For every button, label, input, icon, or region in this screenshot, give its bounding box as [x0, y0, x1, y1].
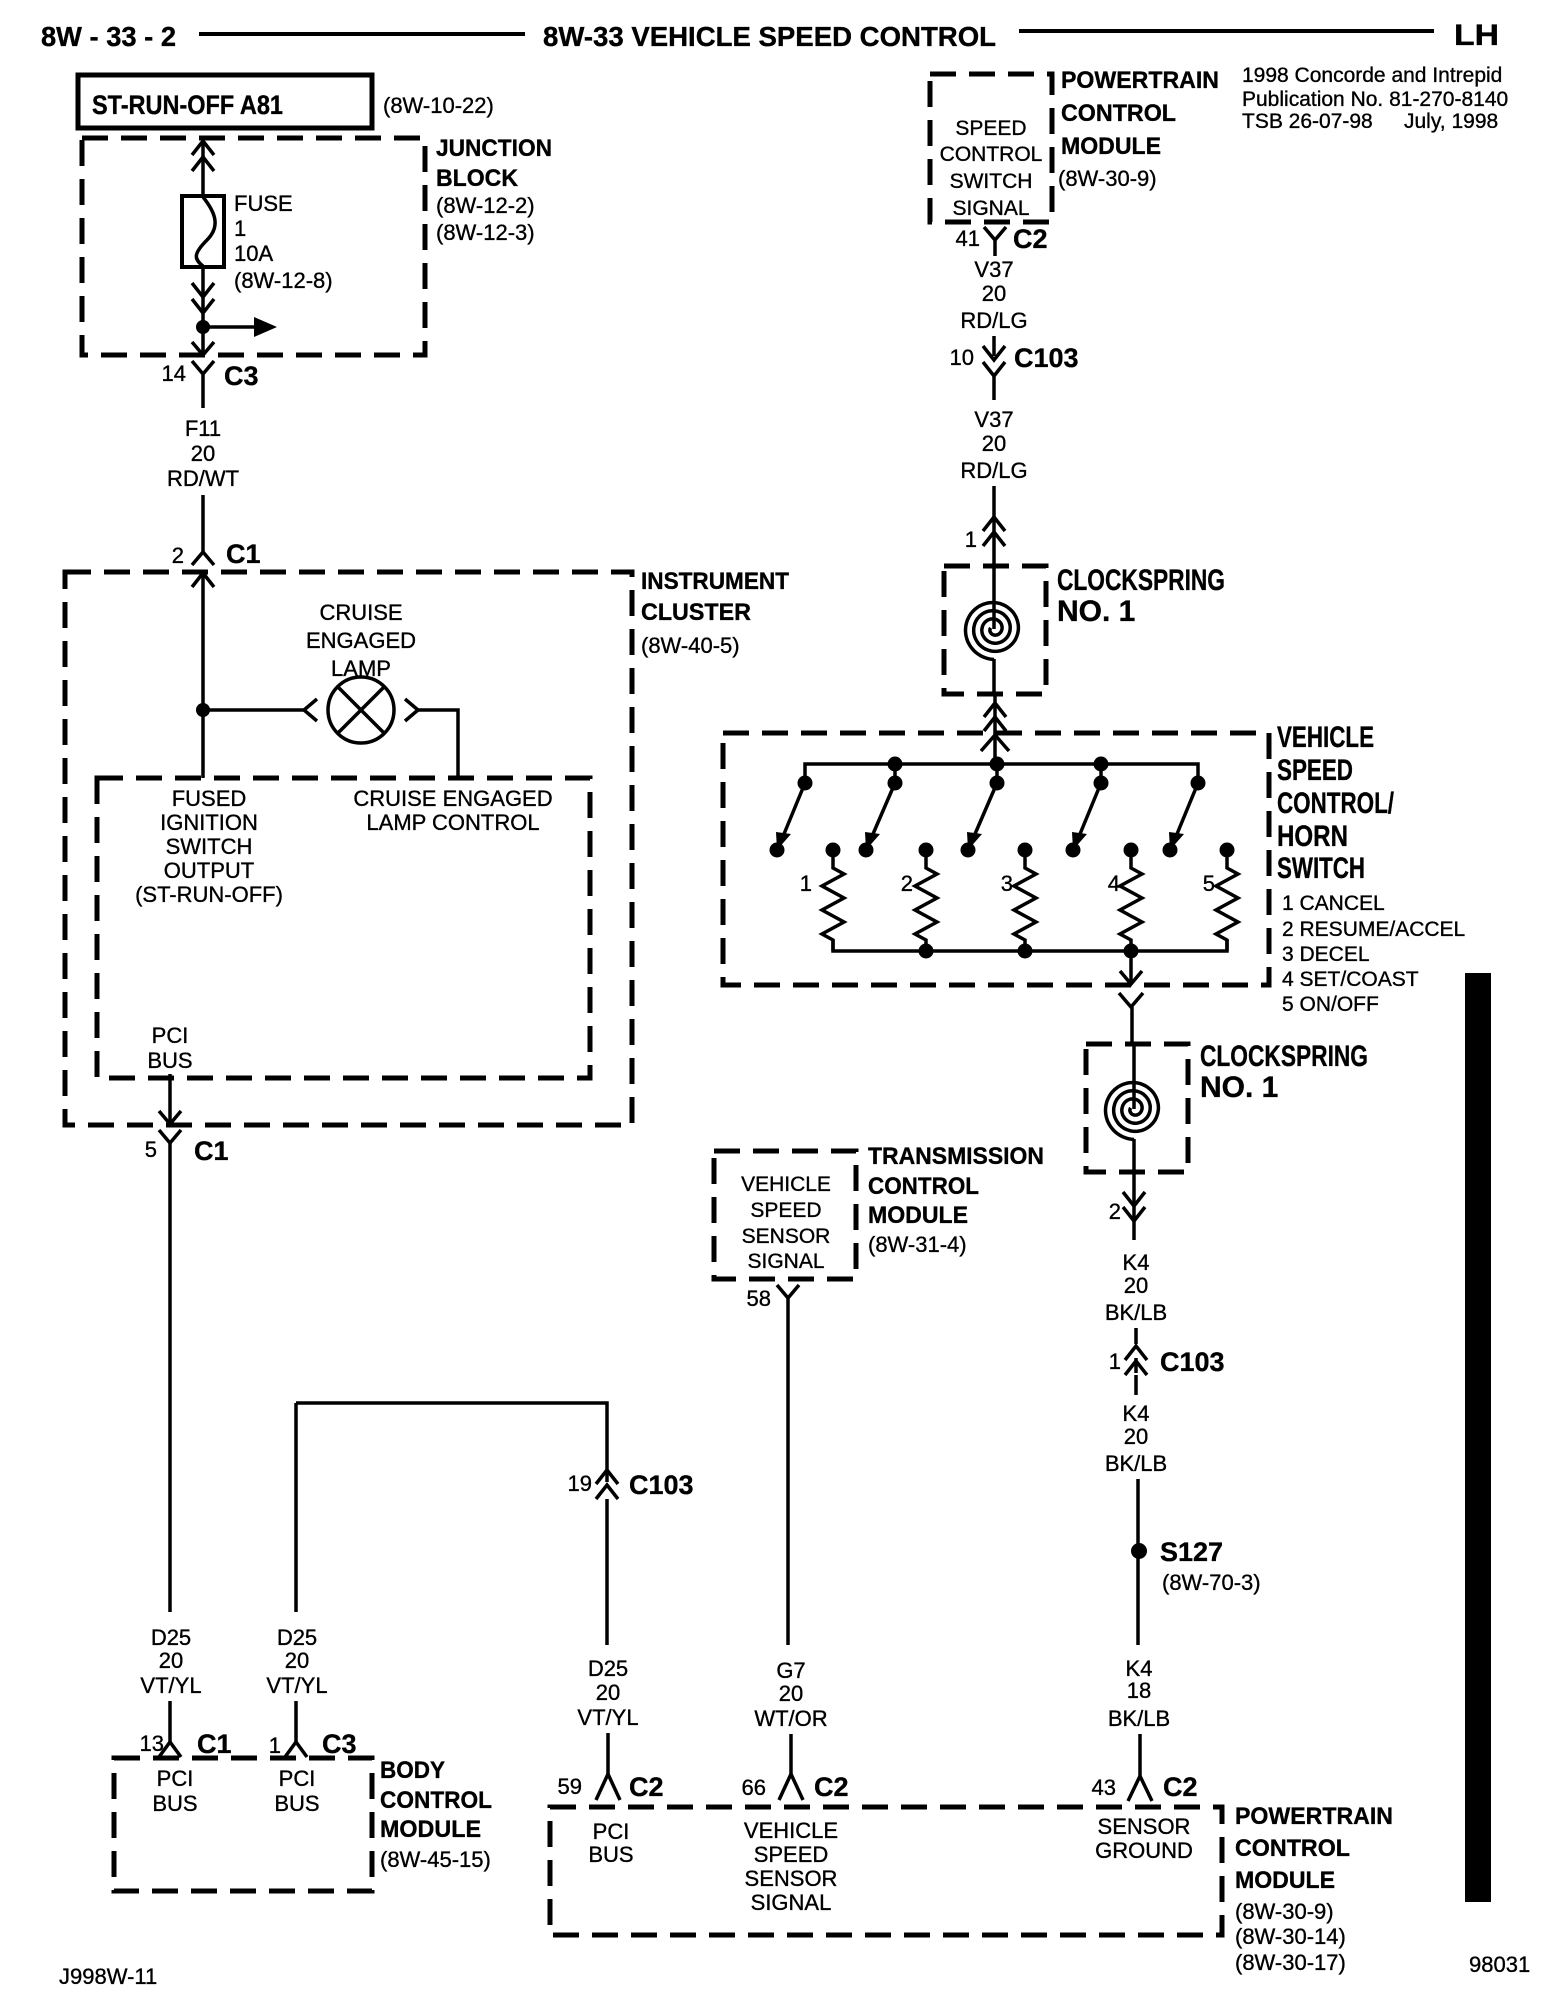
label cruise engaged lamp control	[353, 786, 552, 835]
svg-text:BLOCK: BLOCK	[436, 165, 519, 192]
svg-text:WT/OR: WT/OR	[754, 1706, 827, 1731]
pin 1	[269, 1733, 281, 1758]
svg-text:V37: V37	[974, 257, 1013, 282]
node resistor top contact 1	[826, 843, 841, 858]
node bus dot switch 3	[990, 757, 1005, 784]
connector C2 female half pin 41	[984, 227, 1006, 256]
body control module label	[380, 1757, 492, 1872]
svg-text:VT/YL: VT/YL	[140, 1673, 201, 1698]
wire G7 label	[754, 1658, 827, 1731]
wire below fuse	[201, 267, 205, 321]
svg-text:S127: S127	[1160, 1537, 1223, 1567]
svg-text:MODULE: MODULE	[380, 1816, 481, 1843]
node blade contact switch 2	[859, 843, 874, 858]
svg-text:5 ON/OFF: 5 ON/OFF	[1282, 993, 1379, 1016]
svg-text:SPEED: SPEED	[1277, 754, 1353, 787]
svg-text:20: 20	[285, 1648, 309, 1673]
svg-text:POWERTRAIN: POWERTRAIN	[1061, 67, 1219, 94]
connector C2 male half pin 43	[1128, 1776, 1152, 1801]
svg-text:10: 10	[950, 345, 974, 370]
clockspring no.1 lower box	[1086, 1044, 1188, 1172]
svg-text:1998 Concorde and Intrepid: 1998 Concorde and Intrepid	[1242, 64, 1502, 87]
svg-text:C103: C103	[1160, 1347, 1225, 1377]
wire V37 lower	[992, 376, 996, 400]
svg-text:CRUISE: CRUISE	[319, 600, 402, 625]
pin 13	[140, 1731, 164, 1756]
connector C103 chevrons pin 19	[596, 1470, 618, 1499]
header LH	[1454, 19, 1499, 52]
svg-text:BK/LB: BK/LB	[1105, 1451, 1167, 1476]
node bottom bus dot	[1124, 944, 1139, 959]
svg-text:1: 1	[800, 871, 812, 896]
top bus wire	[805, 764, 1198, 783]
powertrain control module bottom box	[550, 1807, 1222, 1935]
svg-text:TSB 26-07-98: TSB 26-07-98	[1242, 110, 1373, 133]
label fused ignition switch output	[135, 786, 283, 907]
resistor 4	[1120, 850, 1142, 951]
connector C2 male half pin 66	[779, 1774, 803, 1800]
transmission control module label	[868, 1143, 1044, 1257]
node blade contact switch 1	[770, 843, 785, 858]
svg-text:C2: C2	[629, 1772, 664, 1802]
svg-text:2: 2	[172, 543, 184, 568]
svg-text:(8W-30-14): (8W-30-14)	[1235, 1924, 1346, 1949]
wire below clockspring lower	[1132, 1174, 1136, 1240]
svg-text:PCI: PCI	[279, 1766, 316, 1791]
wire D25 branch second	[294, 1403, 298, 1612]
svg-text:ST-RUN-OFF A81: ST-RUN-OFF A81	[92, 90, 283, 120]
svg-text:PCI: PCI	[157, 1766, 194, 1791]
pin 2 clockspring lower	[1109, 1199, 1121, 1224]
cruise engaged lamp label	[306, 600, 416, 681]
switch position number 5	[1203, 871, 1215, 896]
pin 66	[742, 1775, 766, 1800]
svg-text:(8W-40-5): (8W-40-5)	[641, 633, 740, 658]
connector C3 label	[224, 361, 259, 391]
wire K4 middle	[1134, 1375, 1138, 1395]
node bus dot switch 4	[1094, 757, 1109, 784]
wire jumper horizontal	[296, 1403, 607, 1482]
reference (8W-10-22)	[383, 93, 494, 118]
wire D25 to PCM pin 59	[606, 1733, 610, 1774]
svg-text:July, 1998: July, 1998	[1404, 110, 1498, 133]
svg-text:1: 1	[269, 1733, 281, 1758]
svg-text:K4: K4	[1123, 1401, 1150, 1426]
pin 5	[145, 1137, 157, 1162]
svg-text:20: 20	[982, 281, 1006, 306]
svg-text:OUTPUT: OUTPUT	[164, 858, 254, 883]
svg-text:LH: LH	[1454, 19, 1499, 52]
double chevron down below fuse	[192, 283, 214, 313]
svg-text:(8W-30-9): (8W-30-9)	[1235, 1899, 1334, 1924]
pin 58	[747, 1286, 771, 1311]
wire D25 label second	[266, 1625, 327, 1698]
instrument cluster label	[641, 568, 789, 658]
wire K4 to splice	[1136, 1479, 1140, 1645]
svg-text:CLUSTER: CLUSTER	[641, 599, 751, 626]
resistor 3	[1014, 850, 1036, 951]
label sensor ground	[1095, 1814, 1193, 1863]
wire D25 label left	[140, 1625, 201, 1698]
svg-text:20: 20	[1124, 1273, 1148, 1298]
svg-text:ENGAGED: ENGAGED	[306, 628, 416, 653]
svg-text:20: 20	[779, 1681, 803, 1706]
splice S127 label	[1160, 1537, 1223, 1567]
wire PCI bus out of instrument cluster	[168, 1074, 172, 1124]
svg-text:TRANSMISSION: TRANSMISSION	[868, 1143, 1044, 1170]
svg-text:(8W-12-8): (8W-12-8)	[234, 268, 333, 293]
double chevron down below clockspring lower	[1123, 1192, 1145, 1221]
connector C103 chevrons pin 10	[983, 346, 1005, 376]
node top contact switch 2	[888, 776, 903, 791]
pin 10	[950, 345, 974, 370]
svg-text:Publication No. 81-270-8140: Publication No. 81-270-8140	[1242, 88, 1508, 111]
connector C1 female half lower	[159, 1130, 181, 1143]
connector C3 label at BCM	[322, 1729, 357, 1759]
wire D25 below C103	[605, 1499, 609, 1645]
wire V37 to clockspring	[992, 486, 996, 566]
svg-text:NO. 1: NO. 1	[1057, 595, 1135, 628]
svg-text:LAMP CONTROL: LAMP CONTROL	[366, 810, 539, 835]
svg-text:RD/LG: RD/LG	[960, 458, 1027, 483]
svg-text:C1: C1	[226, 539, 261, 569]
chevron down below horn switch box	[1119, 993, 1143, 1007]
svg-text:CONTROL/: CONTROL/	[1277, 787, 1394, 820]
svg-text:SWITCH: SWITCH	[166, 834, 253, 859]
svg-text:SENSOR: SENSOR	[745, 1866, 838, 1891]
svg-text:SIGNAL: SIGNAL	[952, 197, 1029, 220]
switch position number 2	[901, 871, 913, 896]
svg-text:(8W-30-9): (8W-30-9)	[1058, 166, 1157, 191]
chevron up inside horn switch box	[981, 735, 1009, 751]
svg-text:BK/LB: BK/LB	[1108, 1706, 1170, 1731]
svg-text:BODY: BODY	[380, 1757, 445, 1784]
lamp terminal chevron left	[304, 699, 317, 721]
svg-text:D25: D25	[588, 1656, 628, 1681]
lamp CRUISE ENGAGED symbol	[328, 677, 394, 743]
node bus dot switch 2	[888, 757, 903, 784]
header rule right	[1019, 29, 1434, 33]
svg-text:F11: F11	[185, 416, 221, 441]
wire D25 to BCM pin 1	[294, 1701, 298, 1742]
svg-text:J998W-11: J998W-11	[59, 1964, 157, 1989]
splice S127	[1131, 1543, 1147, 1559]
svg-text:BUS: BUS	[588, 1842, 633, 1867]
label J998W-11	[59, 1964, 157, 1989]
svg-text:VT/YL: VT/YL	[266, 1673, 327, 1698]
wire K4 to PCM pin 43	[1138, 1734, 1142, 1776]
label PCI BUS at BCM pin 13	[152, 1766, 197, 1816]
wire V37 label upper	[960, 257, 1027, 333]
reference (8W-70-3)	[1162, 1570, 1261, 1595]
clockspring upper label	[1057, 564, 1225, 628]
svg-text:(8W-45-15): (8W-45-15)	[380, 1847, 491, 1872]
svg-text:20: 20	[596, 1680, 620, 1705]
svg-text:(8W-30-17): (8W-30-17)	[1235, 1950, 1346, 1975]
label vehicle speed sensor signal PCM	[744, 1818, 838, 1915]
wire through clockspring lower	[1132, 1044, 1136, 1174]
connector C1 label at BCM	[197, 1729, 232, 1759]
connector C103 label pin 10	[1014, 343, 1079, 373]
wire G7	[786, 1330, 790, 1645]
connector female half pin 58	[777, 1285, 799, 1330]
node ST-RUN-OFF A81 box	[78, 75, 372, 128]
svg-text:3: 3	[1001, 871, 1013, 896]
label vehicle speed sensor signal TCM	[741, 1173, 831, 1273]
svg-text:SPEED: SPEED	[750, 1199, 821, 1222]
connector C3 male half at BCM	[285, 1742, 307, 1757]
svg-text:14: 14	[162, 361, 186, 386]
fuse F1 element curve	[196, 197, 215, 266]
svg-text:D25: D25	[151, 1625, 191, 1650]
switch legend	[1282, 892, 1465, 1016]
svg-text:JUNCTION: JUNCTION	[436, 135, 552, 162]
svg-text:(ST-RUN-OFF): (ST-RUN-OFF)	[135, 882, 283, 907]
node resistor top contact 3	[1018, 843, 1033, 858]
switch blade 1	[776, 783, 805, 850]
wire clockspring to horn switch	[993, 694, 997, 764]
svg-text:2: 2	[901, 871, 913, 896]
svg-text:SENSOR: SENSOR	[1098, 1814, 1191, 1839]
svg-text:VT/YL: VT/YL	[577, 1705, 638, 1730]
arrow down at instrument cluster bottom edge	[159, 1111, 181, 1124]
wire F11	[201, 495, 205, 552]
svg-text:43: 43	[1092, 1775, 1116, 1800]
svg-text:VEHICLE: VEHICLE	[744, 1818, 838, 1843]
svg-text:41: 41	[956, 226, 980, 251]
label 98031	[1469, 1952, 1530, 1977]
svg-text:20: 20	[191, 441, 215, 466]
wire D25 long left	[168, 1143, 172, 1612]
svg-text:D25: D25	[277, 1625, 317, 1650]
resistor 1	[822, 850, 844, 951]
svg-text:BUS: BUS	[147, 1048, 192, 1073]
switch blade 4	[1072, 783, 1101, 850]
svg-text:SPEED: SPEED	[955, 117, 1026, 140]
svg-text:(8W-31-4): (8W-31-4)	[868, 1232, 967, 1257]
svg-text:SIGNAL: SIGNAL	[747, 1250, 824, 1273]
svg-text:CRUISE ENGAGED: CRUISE ENGAGED	[353, 786, 552, 811]
wire F11 label	[167, 416, 239, 491]
svg-text:VEHICLE: VEHICLE	[741, 1173, 831, 1196]
resistor 2	[915, 850, 937, 951]
svg-text:CONTROL: CONTROL	[940, 143, 1043, 166]
svg-text:G7: G7	[776, 1658, 805, 1683]
vehicle speed control horn switch box	[723, 733, 1269, 985]
svg-text:19: 19	[568, 1471, 592, 1496]
svg-text:MODULE: MODULE	[868, 1202, 968, 1229]
pin 43	[1092, 1775, 1116, 1800]
pin 59	[558, 1774, 582, 1799]
switch position number 1	[800, 871, 812, 896]
node bottom bus dot	[1018, 944, 1033, 959]
connector C3 female half	[192, 361, 214, 408]
resistor 5	[1216, 850, 1238, 951]
wire K4 label upper	[1105, 1250, 1167, 1325]
connector C103 chevrons pin 1	[1125, 1346, 1147, 1375]
svg-text:PCI: PCI	[152, 1023, 189, 1048]
wire K4 upper	[1134, 1328, 1138, 1373]
branch arrow to right	[203, 317, 277, 337]
switch blade 5	[1169, 783, 1198, 850]
switch position number 3	[1001, 871, 1013, 896]
svg-text:C1: C1	[194, 1136, 229, 1166]
instrument cluster inner box	[97, 778, 590, 1078]
svg-text:SPEED: SPEED	[754, 1842, 829, 1867]
connector C1 label	[226, 539, 261, 569]
switch position number 4	[1108, 871, 1120, 896]
svg-text:CONTROL: CONTROL	[868, 1173, 979, 1200]
node junction dot at lamp branch	[196, 703, 210, 717]
svg-text:C3: C3	[322, 1729, 357, 1759]
svg-text:CLOCKSPRING: CLOCKSPRING	[1057, 564, 1225, 597]
svg-text:8W-33 VEHICLE SPEED CONTROL: 8W-33 VEHICLE SPEED CONTROL	[543, 21, 996, 52]
svg-text:NO. 1: NO. 1	[1200, 1071, 1278, 1104]
pin 19	[568, 1471, 592, 1496]
svg-text:C103: C103	[629, 1470, 694, 1500]
connector C2 label pin 66	[814, 1772, 849, 1802]
connector C2 label pin 41	[1013, 224, 1048, 254]
powertrain control module top label	[1058, 67, 1219, 191]
svg-text:59: 59	[558, 1774, 582, 1799]
pin 1 at C103	[1109, 1349, 1121, 1374]
connector C2 label pin 43	[1163, 1772, 1198, 1802]
svg-text:10A: 10A	[234, 241, 273, 266]
svg-text:18: 18	[1127, 1678, 1151, 1703]
wire to junction block bottom	[201, 327, 205, 354]
double chevron up at junction block top	[192, 141, 214, 171]
pin 2	[172, 543, 184, 568]
node top contact switch 5	[1191, 776, 1206, 791]
chevron up inside instrument cluster top	[192, 573, 214, 587]
vehicle speed control horn switch label	[1277, 721, 1394, 885]
clockspring upper coil symbol	[966, 603, 1019, 660]
svg-text:CONTROL: CONTROL	[1061, 100, 1176, 127]
junction block box	[82, 138, 425, 355]
pin 14	[162, 361, 186, 386]
wire K4 label middle	[1105, 1401, 1167, 1476]
label speed control switch signal	[940, 117, 1043, 220]
pin 1 clockspring top	[965, 527, 977, 552]
svg-text:(8W-12-2): (8W-12-2)	[436, 193, 535, 218]
wire switch output	[1129, 951, 1133, 984]
connector C1 label lower	[194, 1136, 229, 1166]
svg-text:98031: 98031	[1469, 1952, 1530, 1977]
node blade contact switch 3	[961, 843, 976, 858]
svg-text:CONTROL: CONTROL	[380, 1787, 492, 1814]
page number 8W-33-2	[41, 21, 176, 52]
wire from A81 into junction block	[201, 140, 205, 196]
arrow down at junction block bottom edge	[192, 342, 214, 355]
junction block label	[436, 135, 552, 245]
powertrain control module bottom label	[1235, 1803, 1393, 1975]
svg-text:3 DECEL: 3 DECEL	[1282, 943, 1370, 966]
svg-text:1: 1	[234, 216, 246, 241]
svg-text:INSTRUMENT: INSTRUMENT	[641, 568, 789, 595]
svg-text:VEHICLE: VEHICLE	[1277, 721, 1374, 754]
svg-text:20: 20	[982, 431, 1006, 456]
svg-text:5: 5	[145, 1137, 157, 1162]
svg-text:C2: C2	[1163, 1772, 1198, 1802]
svg-text:SWITCH: SWITCH	[1277, 852, 1365, 885]
svg-text:(8W-70-3): (8W-70-3)	[1162, 1570, 1261, 1595]
svg-text:20: 20	[159, 1648, 183, 1673]
svg-text:HORN: HORN	[1277, 820, 1348, 853]
svg-text:CLOCKSPRING: CLOCKSPRING	[1200, 1040, 1368, 1073]
svg-text:PCI: PCI	[593, 1819, 630, 1844]
switch blade 3	[967, 783, 997, 850]
lamp terminal chevron right	[405, 699, 418, 721]
page binding bar	[1465, 973, 1491, 1902]
clockspring no.1 upper box	[944, 566, 1046, 694]
svg-text:2 RESUME/ACCEL: 2 RESUME/ACCEL	[1282, 918, 1465, 941]
fuse F1 label	[234, 191, 333, 293]
node bottom bus dot	[919, 944, 934, 959]
svg-text:C2: C2	[1013, 224, 1048, 254]
svg-text:8W - 33 - 2: 8W - 33 - 2	[41, 21, 176, 52]
connector C1 male half	[192, 552, 214, 565]
wire G7 to PCM pin 66	[789, 1734, 793, 1774]
label PCI BUS instrument cluster	[147, 1023, 192, 1073]
instrument cluster box	[65, 572, 632, 1125]
body control module box	[114, 1758, 372, 1891]
node blade contact switch 4	[1066, 843, 1081, 858]
node top contact switch 1	[798, 776, 813, 791]
pin 41	[956, 226, 980, 251]
label PCI BUS at PCM	[588, 1819, 633, 1867]
wire D25 label third	[577, 1656, 638, 1730]
svg-text:4 SET/COAST: 4 SET/COAST	[1282, 968, 1419, 991]
svg-text:66: 66	[742, 1775, 766, 1800]
svg-text:SIGNAL: SIGNAL	[751, 1890, 832, 1915]
svg-text:1: 1	[1109, 1349, 1121, 1374]
connector C103 label left	[629, 1470, 694, 1500]
svg-text:IGNITION: IGNITION	[160, 810, 258, 835]
switch blade 2	[865, 783, 895, 850]
wire D25 to BCM pin 13	[168, 1701, 172, 1742]
svg-text:2: 2	[1109, 1199, 1121, 1224]
wire fused ignition switch output	[201, 573, 205, 778]
connector C1 male half at BCM	[159, 1742, 181, 1757]
double chevron up below clockspring	[984, 703, 1006, 731]
node resistor top contact 5	[1220, 843, 1235, 858]
wire to cruise engaged lamp	[203, 708, 304, 712]
svg-text:CONTROL: CONTROL	[1235, 1835, 1350, 1862]
svg-text:SENSOR: SENSOR	[742, 1225, 831, 1248]
svg-text:58: 58	[747, 1286, 771, 1311]
powertrain control module top box	[930, 74, 1052, 222]
svg-text:5: 5	[1203, 871, 1215, 896]
svg-text:4: 4	[1108, 871, 1120, 896]
transmission control module box	[714, 1151, 856, 1279]
svg-text:POWERTRAIN: POWERTRAIN	[1235, 1803, 1393, 1830]
connector C2 male half pin 59	[596, 1774, 620, 1800]
wire to clockspring lower	[1130, 1007, 1134, 1044]
fuse F1 body	[182, 196, 224, 267]
wire V37 upper	[992, 336, 996, 356]
svg-text:K4: K4	[1123, 1250, 1150, 1275]
svg-text:C1: C1	[197, 1729, 232, 1759]
node junction dot in junction block	[196, 320, 210, 334]
wire K4 label lower	[1108, 1656, 1170, 1731]
arrow down at horn switch bottom edge	[1120, 971, 1142, 984]
wire V37 label lower	[960, 407, 1027, 483]
wire through clockspring upper	[992, 566, 996, 694]
svg-text:RD/LG: RD/LG	[960, 308, 1027, 333]
node top contact switch 4	[1094, 776, 1109, 791]
label PCI BUS at BCM pin 1	[274, 1766, 319, 1816]
node top contact switch 3	[990, 776, 1005, 791]
